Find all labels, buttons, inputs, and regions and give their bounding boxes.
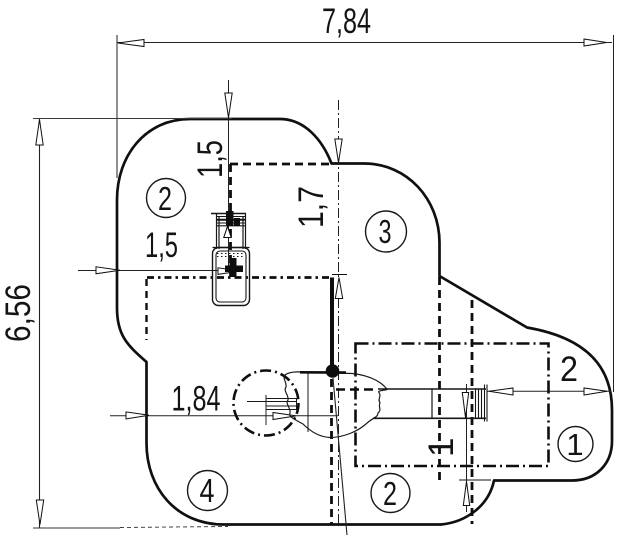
- thick dashed vertical below dot (x=332): [330, 379, 333, 524]
- svg-text:2: 2: [158, 180, 172, 217]
- zone label circle 3: [366, 211, 407, 252]
- zone label circle 2 (bottom): [371, 474, 410, 513]
- thick dashed vertical x=472: [471, 300, 474, 524]
- swing: dotted rows: [217, 254, 245, 257]
- junction dot: [326, 364, 340, 378]
- spring rider: interior line: [307, 374, 309, 433]
- svg-text:2: 2: [383, 475, 397, 512]
- dimension 1,7 tick: [332, 274, 347, 276]
- dimension 1,84 line: [110, 415, 338, 417]
- unlabeled vertical dimension lower arrow: [463, 482, 469, 506]
- horizontal dimension 1,5 line: [78, 270, 241, 272]
- dimension 6,56 text (rotated): [0, 284, 38, 342]
- dimension 6,56 top arrow: [36, 120, 43, 146]
- tunnel item 1: body: [373, 389, 486, 418]
- unlabeled vertical dimension tick: [459, 479, 491, 481]
- swing: top bar: [211, 213, 246, 215]
- horizontal dimension 1,5 arrow at swing centre: [218, 268, 240, 275]
- svg-text:1: 1: [566, 427, 583, 462]
- dimension 7,84 right arrow: [584, 39, 607, 46]
- vertical dimension 1,5 line: [228, 80, 230, 271]
- dimension 1,7 line (thin dash-dot vertical x=338): [338, 100, 340, 524]
- dimension 7,84 text: [322, 2, 371, 41]
- dash-dot rectangle around item 1: [356, 344, 549, 467]
- vertical dimension 1,5 bottom arrow: [224, 227, 231, 238]
- svg-text:1,5: 1,5: [191, 140, 230, 178]
- tunnel item 1: end rings: [476, 385, 488, 422]
- vertical dimension 1,5 text (rotated): [191, 140, 230, 178]
- dimension 1,84 text: [172, 380, 221, 419]
- swing: rungs: [217, 217, 246, 226]
- thick dashed path: lower L (y=277.5): [147, 276, 333, 279]
- svg-text:1,7: 1,7: [292, 186, 331, 228]
- unlabeled vertical dimension upper arrow: [462, 393, 468, 418]
- svg-text:1,84: 1,84: [172, 380, 221, 419]
- swing centre dark cross: [225, 258, 243, 277]
- dimension 6,56 bottom arrow: [36, 500, 43, 525]
- unlabeled vertical dimension at tunnel end: line: [466, 384, 468, 512]
- spring rider: centre tick: [265, 395, 267, 425]
- svg-text:3: 3: [379, 213, 392, 250]
- horizontal dimension 1,5 arrow at zone edge: [96, 267, 120, 274]
- svg-text:1: 1: [422, 438, 461, 457]
- swing: lower box inner: [216, 251, 246, 302]
- swing: upper frame sides: [217, 214, 246, 250]
- dimension 7,84 left arrow: [118, 40, 144, 47]
- zone label circle 2 (top-left): [147, 179, 186, 218]
- safety-zone outline (main blob): [117, 119, 612, 525]
- spring rider: thick top edge near junction: [300, 371, 346, 374]
- vertical dimension 1,5 top arrow: [225, 93, 232, 118]
- dimension 2 right arrow: [584, 388, 607, 395]
- extension line bottom (y=528): [33, 527, 228, 529]
- horizontal dimension 1,5 text: [145, 226, 178, 265]
- thick solid drop to junction dot: [330, 278, 334, 367]
- dimension 1,7 top arrow: [335, 139, 342, 163]
- dimension 1,7 text (rotated): [292, 186, 331, 228]
- zone label circle 4: [188, 471, 228, 511]
- spring rider: dash-dot circle: [234, 371, 299, 436]
- zone label circle 1: [558, 427, 593, 462]
- svg-text:2: 2: [560, 350, 578, 389]
- dimension 2 line: [487, 390, 611, 392]
- dimension 2 text: [560, 350, 578, 389]
- swing: lower box outer: [213, 248, 250, 306]
- dimension 1,84 arrow at zone edge: [126, 412, 149, 419]
- tunnel item 1: ring: [431, 389, 433, 418]
- spring rider: body outline: [284, 372, 387, 438]
- thin slanted line from junction dot: [333, 378, 347, 535]
- dimension 1,7 bottom arrow: [335, 278, 342, 299]
- dimension 7,84 line: [117, 42, 612, 44]
- svg-text:4: 4: [200, 472, 215, 509]
- swing: centre black blocks: [226, 211, 240, 226]
- dimension 1,84 arrow at rider: [273, 413, 296, 420]
- svg-text:1,5: 1,5: [145, 226, 178, 265]
- hidden tunnel edge (dashed) behind rider: [336, 388, 373, 391]
- dimension 2 left arrow: [489, 388, 513, 395]
- extension line right (x=613.5): [613, 35, 615, 392]
- extension line top (y=119): [33, 118, 232, 120]
- dimension 6,56 line: [39, 119, 41, 528]
- swing: mid bar: [213, 247, 250, 249]
- thick dashed path: upper L (y=164 / x=230.5): [230, 164, 332, 277]
- thick dashed vertical x=439: [438, 277, 441, 482]
- svg-text:7,84: 7,84: [322, 2, 371, 41]
- swing: inner arrow: [224, 227, 231, 238]
- item 1 label (rotated): [422, 438, 461, 457]
- spring rider: seat detail: [247, 399, 297, 410]
- short dashed vertical x=146.5 (zone rect edge): [145, 279, 147, 340]
- extension line left (x=117): [116, 35, 118, 178]
- svg-text:6,56: 6,56: [0, 284, 38, 342]
